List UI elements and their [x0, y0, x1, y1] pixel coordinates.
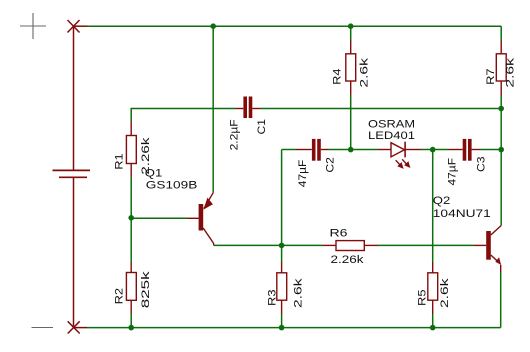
svg-text:2.26k: 2.26k — [331, 254, 365, 266]
sheet marker cross top-left — [20, 13, 46, 39]
node junction R1/R2/base — [128, 215, 134, 221]
svg-text:R1: R1 — [114, 153, 126, 170]
node junction x=350.7 y=150 — [348, 147, 354, 153]
wire R1 bottom to junction — [130, 177, 132, 218]
svg-text:Q2: Q2 — [433, 195, 451, 207]
wire R4 top — [350, 26, 352, 40]
wire R2 bottom — [130, 314, 132, 328]
LED D1 OSRAM LED401 — [368, 118, 421, 169]
wire x=432.7 column down to R5 — [432, 150, 434, 263]
node junction top x=350.7 — [348, 23, 354, 29]
svg-text:LED401: LED401 — [368, 130, 415, 142]
resistor R1 — [114, 122, 152, 178]
wire R3 bottom — [281, 314, 283, 328]
svg-text:R5: R5 — [417, 290, 429, 307]
transistor Q1 GS109B (PNP) — [145, 167, 214, 245]
wire y=245 from Q1 collector — [214, 244, 323, 246]
svg-text:47µF: 47µF — [446, 158, 458, 186]
wire R2 top — [130, 218, 132, 262]
svg-text:GS109B: GS109B — [146, 180, 198, 192]
sheet marker dash bottom-left — [32, 327, 54, 329]
node X marker bottom (battery -) — [68, 321, 87, 333]
wire R5 bottom — [432, 314, 434, 328]
svg-text:R7: R7 — [485, 68, 497, 85]
svg-text:2.6k: 2.6k — [439, 278, 451, 308]
svg-text:R2: R2 — [114, 288, 126, 305]
wire LED cathode to junction — [421, 149, 433, 151]
capacitor C2 — [296, 139, 351, 187]
svg-text:2.2µF: 2.2µF — [229, 119, 241, 150]
svg-text:2.6k: 2.6k — [358, 57, 370, 87]
node junction x=501.2 y=150 — [498, 147, 504, 153]
svg-text:C1: C1 — [256, 119, 268, 135]
svg-text:C3: C3 — [476, 157, 488, 173]
capacitor C1 — [229, 97, 268, 151]
wire base Q1 — [131, 217, 187, 219]
svg-text:C2: C2 — [325, 157, 337, 173]
wire R4 bottom to y150 — [350, 95, 352, 150]
battery B1 — [53, 26, 91, 328]
svg-text:Q1: Q1 — [145, 167, 163, 179]
wire R7 column y=96..150 — [500, 96, 502, 150]
resistor R4 — [332, 41, 371, 96]
resistor R2 — [114, 262, 153, 314]
capacitor C3 — [446, 139, 501, 186]
node junction R2 bottom — [128, 325, 134, 331]
resistor R6 — [323, 227, 379, 265]
wire right column top (to R7) — [500, 26, 502, 40]
wire bottom rail — [87, 327, 501, 329]
svg-text:104NU71: 104NU71 — [433, 208, 491, 220]
node junction x=432.7 y=150 — [430, 147, 436, 153]
node X marker top (battery +) — [68, 20, 88, 33]
svg-text:47µF: 47µF — [297, 159, 309, 187]
wire junction to C3 — [433, 149, 449, 151]
resistor R7 — [485, 41, 517, 97]
node junction R3 bottom — [279, 325, 285, 331]
wire top rail — [88, 25, 502, 27]
svg-text:R4: R4 — [332, 68, 344, 85]
wire R3 top — [281, 245, 283, 262]
svg-text:R6: R6 — [330, 227, 348, 239]
svg-text:2.6k: 2.6k — [505, 57, 517, 87]
node junction x=281.6 y=245 — [279, 243, 285, 249]
wire Q2 emitter down to bottom rail — [500, 273, 502, 328]
wire y=108 right segment (C1 to R7 column) — [260, 108, 501, 110]
resistor R5 — [417, 262, 451, 314]
wire y=150 C2 left corner down — [282, 150, 296, 246]
node junction R7 bottom / C1 wire — [498, 106, 504, 112]
wire x=213 column (top rail to Q1 emitter) — [212, 26, 214, 192]
node junction R5 bottom — [430, 325, 436, 331]
node junction top x=213 — [210, 23, 216, 29]
wire LED anode — [351, 149, 378, 151]
wire y=108 left segment (to C1) — [131, 108, 236, 122]
svg-text:OSRAM: OSRAM — [368, 118, 415, 130]
svg-text:R3: R3 — [266, 290, 278, 307]
wire x=501 down to Q2 collector — [500, 150, 502, 226]
resistor R3 — [266, 262, 304, 314]
wire R6 to Q2 base — [378, 244, 474, 246]
transistor Q2 104NU71 (NPN) — [433, 195, 501, 273]
svg-text:2.6k: 2.6k — [293, 278, 305, 308]
svg-text:825k: 825k — [140, 271, 152, 309]
